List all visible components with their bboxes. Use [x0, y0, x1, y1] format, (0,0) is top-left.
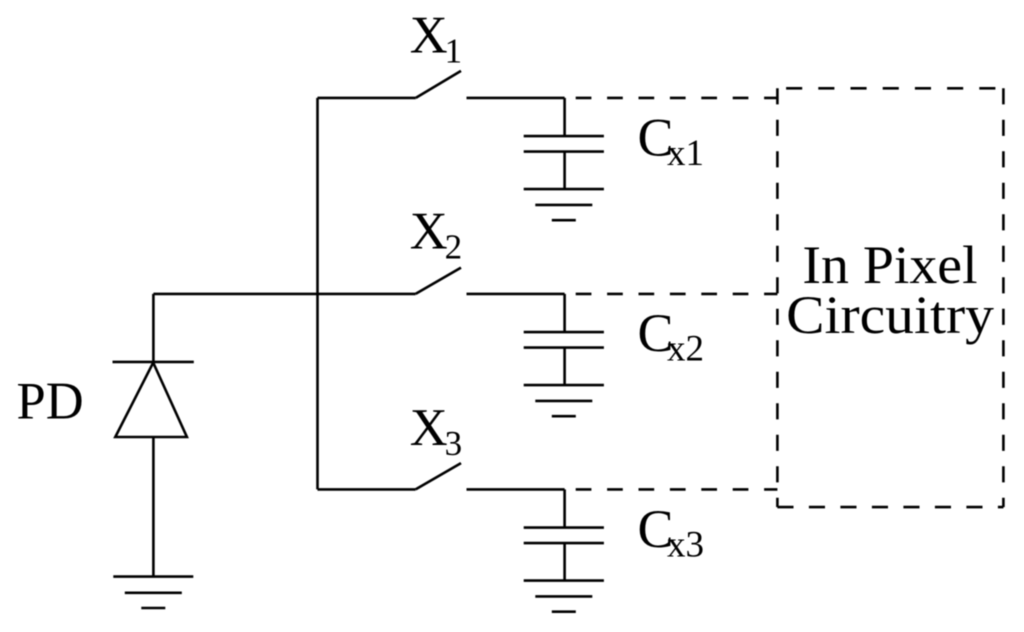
wire PD to switch X2	[153, 293, 415, 296]
wire cap1 top lead	[563, 98, 566, 136]
dashed net row1	[576, 97, 778, 100]
switch X1	[416, 71, 461, 98]
svg-text:X: X	[410, 399, 448, 457]
wire vertical bus	[316, 98, 319, 490]
dashed net row3	[576, 488, 778, 491]
dashed net row2	[576, 293, 778, 296]
svg-text:X: X	[410, 203, 448, 261]
wire row3 left	[318, 488, 416, 491]
capacitor Cx2	[524, 332, 604, 348]
wire cap2 bottom lead	[563, 348, 566, 386]
svg-text:PD: PD	[17, 372, 84, 430]
ground Cx1	[524, 189, 604, 220]
label PD	[17, 372, 84, 430]
wire row3 right	[467, 488, 565, 491]
svg-text:Circuitry: Circuitry	[786, 285, 994, 345]
svg-text:3: 3	[445, 424, 463, 463]
wire cap3 bottom lead	[563, 543, 566, 581]
label X1	[410, 6, 462, 70]
wire PD bottom lead	[152, 437, 155, 577]
ground Cx3	[524, 581, 604, 612]
svg-text:1: 1	[445, 32, 463, 71]
dashed box In Pixel Circuitry	[777, 88, 1003, 507]
wire cap2 top lead	[563, 294, 566, 332]
wire row2 right	[467, 293, 565, 296]
wire PD top lead	[152, 294, 155, 362]
ground PD	[113, 577, 193, 608]
label Cx2	[638, 303, 705, 370]
capacitor Cx3	[524, 528, 604, 544]
svg-text:X: X	[410, 6, 448, 64]
svg-text:x2: x2	[667, 329, 704, 370]
wire row1 right	[467, 97, 565, 100]
wire cap1 bottom lead	[563, 152, 566, 190]
photodiode PD	[113, 362, 194, 437]
capacitor Cx1	[524, 136, 604, 152]
wire row1 left	[318, 97, 416, 100]
label Cx3	[638, 499, 705, 566]
ground Cx2	[524, 385, 604, 416]
label Cx1	[638, 107, 705, 174]
switch X3	[416, 463, 461, 489]
svg-text:x3: x3	[667, 524, 704, 565]
switch X2	[416, 268, 461, 294]
svg-text:x1: x1	[667, 133, 704, 174]
label In Pixel Circuitry	[786, 235, 994, 345]
svg-text:2: 2	[445, 228, 463, 267]
label X3	[410, 399, 462, 463]
label X2	[410, 203, 462, 267]
wire cap3 top lead	[563, 489, 566, 527]
